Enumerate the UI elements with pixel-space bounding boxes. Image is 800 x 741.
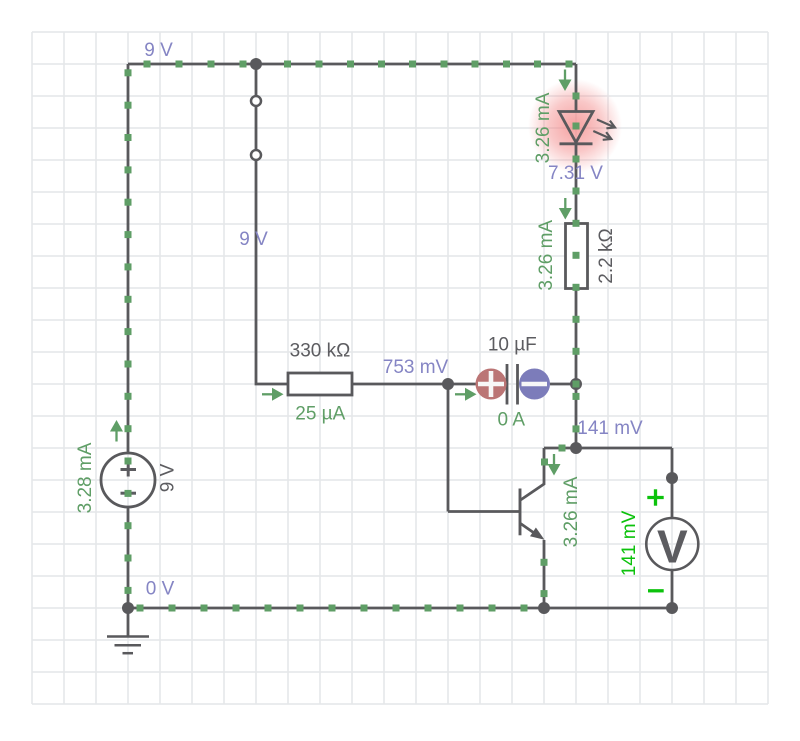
svg-text:753 mV: 753 mV [383,357,449,378]
svg-text:25 µA: 25 µA [295,404,345,425]
svg-text:10 µF: 10 µF [488,334,537,355]
svg-text:0 V: 0 V [146,579,175,600]
svg-text:7.31 V: 7.31 V [548,163,603,184]
svg-text:3.26 mA: 3.26 mA [536,220,557,291]
svg-text:3.26 mA: 3.26 mA [561,476,582,547]
svg-text:3.26 mA: 3.26 mA [533,92,554,163]
svg-text:9 V: 9 V [239,229,268,250]
svg-text:0 A: 0 A [498,410,526,431]
svg-text:330 kΩ: 330 kΩ [290,341,351,362]
svg-text:141 mV: 141 mV [619,510,640,576]
svg-text:V: V [657,521,688,573]
svg-text:9 V: 9 V [144,40,173,61]
svg-text:9 V: 9 V [157,463,178,492]
svg-text:141 mV: 141 mV [577,418,643,439]
svg-text:3.28 mA: 3.28 mA [75,442,96,513]
svg-text:2.2 kΩ: 2.2 kΩ [596,228,617,283]
